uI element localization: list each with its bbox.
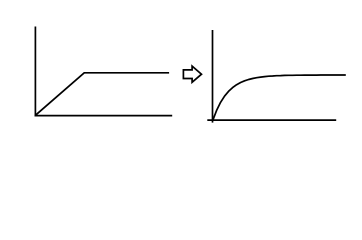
right exponential saturation curve [213,75,346,121]
right graph x-axis [207,119,336,121]
left graph x-axis [35,115,173,117]
left graph y-axis [34,27,36,117]
hollow right arrow [183,66,201,82]
left ramp-saturation curve [35,73,169,116]
right graph y-axis [212,30,214,123]
